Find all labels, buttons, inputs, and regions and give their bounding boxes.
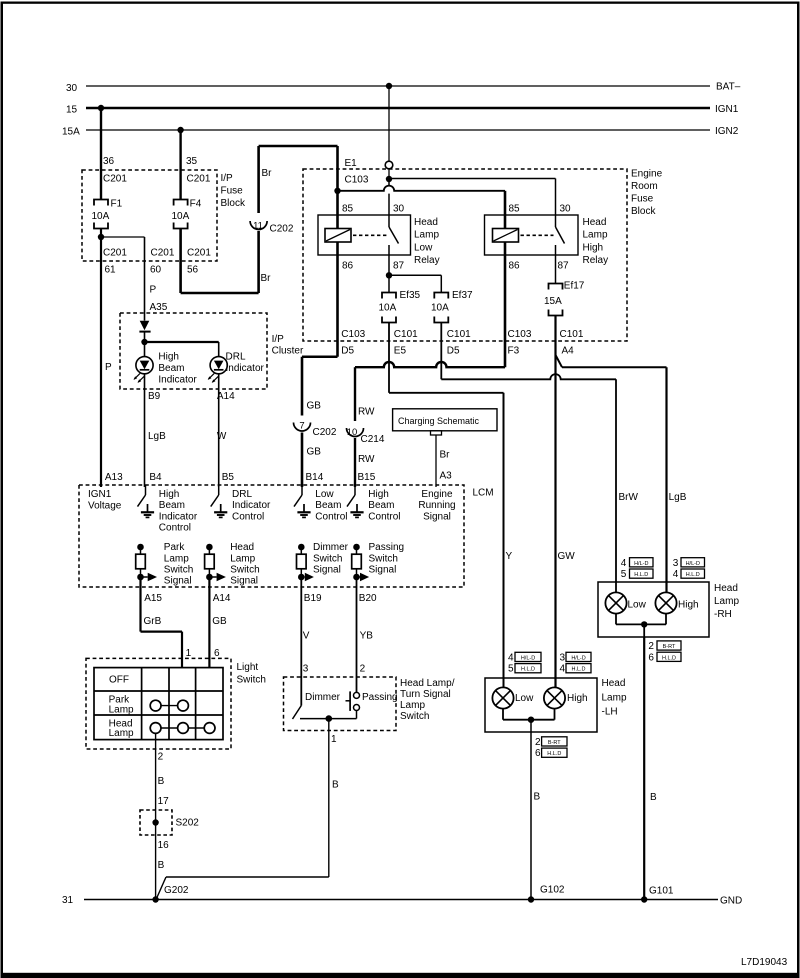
svg-text:Switch: Switch [237, 675, 266, 686]
svg-text:H/L-D: H/L-D [571, 655, 585, 661]
svg-text:GND: GND [720, 896, 742, 907]
svg-text:YB: YB [360, 631, 374, 642]
svg-text:C103: C103 [341, 329, 365, 340]
svg-text:Passing: Passing [362, 692, 398, 703]
svg-text:High: High [567, 693, 588, 704]
svg-text:H.L.D: H.L.D [521, 667, 535, 673]
svg-text:87: 87 [393, 261, 405, 272]
svg-text:B9: B9 [148, 391, 161, 402]
svg-text:Room: Room [631, 181, 658, 192]
svg-text:Head: Head [714, 583, 738, 594]
svg-text:10A: 10A [92, 211, 110, 222]
svg-text:Running: Running [418, 500, 455, 511]
svg-text:1: 1 [331, 734, 337, 745]
svg-text:11: 11 [253, 221, 263, 232]
svg-text:IGN1: IGN1 [715, 104, 739, 115]
svg-text:I/P: I/P [272, 334, 285, 345]
svg-text:B5: B5 [222, 472, 235, 483]
svg-text:36: 36 [103, 156, 115, 167]
svg-text:-LH: -LH [602, 707, 618, 718]
svg-text:85: 85 [509, 203, 521, 214]
svg-text:GW: GW [558, 551, 576, 562]
svg-text:6: 6 [648, 652, 654, 663]
svg-text:A13: A13 [105, 472, 123, 483]
svg-text:Head Lamp/: Head Lamp/ [400, 678, 455, 689]
svg-text:Control: Control [159, 523, 191, 534]
svg-text:B: B [332, 780, 339, 791]
svg-text:G202: G202 [164, 885, 189, 896]
svg-text:High: High [159, 489, 180, 500]
svg-text:A4: A4 [562, 346, 575, 357]
svg-text:Indicator: Indicator [232, 500, 271, 511]
svg-text:Beam: Beam [159, 500, 185, 511]
svg-text:GB: GB [212, 616, 227, 627]
svg-text:30: 30 [560, 203, 572, 214]
svg-text:7: 7 [299, 421, 304, 432]
svg-text:Control: Control [315, 511, 347, 522]
svg-text:30: 30 [393, 203, 405, 214]
svg-text:Switch: Switch [313, 553, 342, 564]
svg-text:Lamp: Lamp [230, 553, 255, 564]
svg-text:56: 56 [187, 265, 199, 276]
svg-text:P: P [105, 362, 112, 373]
svg-text:Y: Y [506, 551, 513, 562]
svg-text:C101: C101 [394, 329, 418, 340]
svg-text:High: High [583, 242, 604, 253]
svg-text:1: 1 [186, 648, 192, 659]
svg-text:A35: A35 [150, 302, 168, 313]
svg-text:86: 86 [509, 261, 521, 272]
svg-text:5: 5 [621, 569, 627, 580]
svg-text:10A: 10A [379, 303, 397, 314]
svg-text:BrW: BrW [619, 492, 639, 503]
svg-text:Lamp: Lamp [714, 596, 739, 607]
svg-text:H/L-D: H/L-D [634, 561, 648, 567]
svg-text:Lamp: Lamp [109, 704, 134, 715]
svg-text:W: W [217, 431, 227, 442]
svg-text:10: 10 [347, 427, 358, 438]
svg-text:60: 60 [150, 265, 162, 276]
svg-text:2: 2 [648, 641, 654, 652]
svg-text:Head: Head [602, 678, 626, 689]
svg-text:Low: Low [515, 693, 534, 704]
svg-text:B19: B19 [304, 593, 322, 604]
svg-text:Low: Low [315, 489, 334, 500]
svg-text:Lamp: Lamp [109, 728, 134, 739]
svg-text:P: P [150, 285, 157, 296]
svg-text:C214: C214 [361, 434, 385, 445]
svg-text:Fuse: Fuse [221, 186, 244, 197]
svg-text:GB: GB [307, 401, 322, 412]
svg-text:3: 3 [673, 558, 679, 569]
svg-text:17: 17 [158, 796, 170, 807]
svg-text:Control: Control [368, 511, 400, 522]
svg-text:C103: C103 [508, 329, 532, 340]
svg-text:Block: Block [221, 198, 246, 209]
svg-text:Signal: Signal [369, 565, 397, 576]
svg-text:Relay: Relay [583, 255, 609, 266]
svg-text:Head: Head [230, 542, 254, 553]
svg-text:C201: C201 [103, 248, 127, 259]
svg-text:61: 61 [105, 265, 117, 276]
svg-text:A14: A14 [213, 593, 231, 604]
svg-text:Passing: Passing [369, 542, 405, 553]
svg-text:H.L.D: H.L.D [686, 572, 700, 578]
svg-text:IGN1: IGN1 [88, 489, 112, 500]
svg-text:10A: 10A [172, 211, 190, 222]
svg-text:C201: C201 [151, 248, 175, 259]
svg-text:Ef35: Ef35 [400, 290, 421, 301]
svg-text:3: 3 [303, 664, 309, 675]
svg-text:L7D19043: L7D19043 [741, 957, 788, 968]
svg-text:High: High [368, 489, 389, 500]
svg-text:BAT–: BAT– [716, 82, 741, 93]
svg-text:5: 5 [508, 664, 514, 675]
svg-text:6: 6 [214, 648, 220, 659]
svg-text:B15: B15 [358, 472, 376, 483]
svg-text:Beam: Beam [315, 500, 341, 511]
svg-text:2: 2 [535, 737, 541, 748]
svg-text:Park: Park [164, 542, 186, 553]
svg-text:C201: C201 [187, 248, 211, 259]
svg-text:F3: F3 [508, 346, 520, 357]
svg-text:C103: C103 [345, 175, 369, 186]
svg-text:Switch: Switch [230, 565, 259, 576]
svg-text:B14: B14 [306, 472, 324, 483]
svg-text:15: 15 [66, 105, 78, 116]
svg-text:H/L-D: H/L-D [521, 655, 535, 661]
svg-text:Lamp: Lamp [400, 700, 425, 711]
svg-text:F1: F1 [111, 199, 123, 210]
svg-text:Lamp: Lamp [164, 553, 189, 564]
svg-text:B: B [158, 776, 165, 787]
svg-text:DRL: DRL [226, 352, 246, 363]
svg-text:F4: F4 [190, 199, 202, 210]
svg-text:4: 4 [508, 652, 514, 663]
svg-text:RW: RW [358, 454, 375, 465]
svg-text:31: 31 [62, 895, 74, 906]
svg-text:10A: 10A [431, 303, 449, 314]
svg-text:Switch: Switch [369, 553, 398, 564]
svg-text:B-RT: B-RT [548, 740, 561, 746]
svg-text:Lamp: Lamp [583, 230, 608, 241]
svg-text:C201: C201 [187, 174, 211, 185]
svg-text:Signal: Signal [313, 565, 341, 576]
svg-text:Switch: Switch [400, 711, 429, 722]
svg-text:2: 2 [158, 752, 164, 763]
svg-text:B20: B20 [359, 593, 377, 604]
svg-text:6: 6 [535, 748, 541, 759]
svg-text:Signal: Signal [230, 576, 258, 587]
svg-text:DRL: DRL [232, 489, 252, 500]
svg-text:Indicator: Indicator [226, 363, 265, 374]
svg-text:Signal: Signal [423, 511, 451, 522]
svg-text:E5: E5 [394, 346, 407, 357]
svg-text:Fuse: Fuse [631, 194, 654, 205]
svg-text:Block: Block [631, 206, 656, 217]
svg-text:H.L.D: H.L.D [634, 572, 648, 578]
svg-text:C202: C202 [313, 427, 337, 438]
svg-text:3: 3 [560, 652, 566, 663]
svg-text:B: B [534, 792, 541, 803]
svg-text:Turn Signal: Turn Signal [400, 689, 451, 700]
svg-text:G102: G102 [540, 885, 565, 896]
svg-text:D5: D5 [447, 346, 460, 357]
svg-text:Light: Light [237, 662, 259, 673]
svg-text:Indicator: Indicator [159, 511, 198, 522]
svg-text:35: 35 [186, 156, 198, 167]
svg-text:A3: A3 [440, 471, 453, 482]
svg-text:Beam: Beam [368, 500, 394, 511]
svg-text:Dimmer: Dimmer [313, 542, 349, 553]
svg-text:H.L.D: H.L.D [662, 655, 676, 661]
svg-text:Beam: Beam [158, 363, 184, 374]
svg-text:86: 86 [342, 261, 354, 272]
svg-text:Head: Head [583, 217, 607, 228]
svg-text:-RH: -RH [714, 609, 732, 620]
svg-text:H.L.D: H.L.D [571, 667, 585, 673]
svg-text:B-RT: B-RT [663, 644, 676, 650]
svg-text:GrB: GrB [144, 616, 162, 627]
svg-text:Switch: Switch [164, 565, 193, 576]
svg-text:Br: Br [440, 450, 451, 461]
svg-text:S202: S202 [176, 818, 200, 829]
svg-text:LgB: LgB [148, 431, 166, 442]
svg-text:15A: 15A [62, 127, 80, 138]
svg-text:B4: B4 [149, 472, 162, 483]
svg-text:Voltage: Voltage [88, 501, 122, 512]
svg-text:GB: GB [307, 447, 322, 458]
svg-text:4: 4 [673, 569, 679, 580]
svg-text:Ef37: Ef37 [452, 290, 473, 301]
svg-text:IGN2: IGN2 [715, 126, 739, 137]
svg-text:Low: Low [414, 242, 433, 253]
svg-text:Lamp: Lamp [414, 230, 439, 241]
svg-text:85: 85 [342, 203, 354, 214]
svg-text:Br: Br [262, 168, 273, 179]
svg-text:A15: A15 [144, 593, 162, 604]
svg-text:V: V [303, 631, 310, 642]
svg-text:4: 4 [621, 558, 627, 569]
svg-text:OFF: OFF [109, 675, 129, 686]
svg-text:A14: A14 [217, 391, 235, 402]
svg-text:High: High [158, 352, 179, 363]
svg-text:Dimmer: Dimmer [305, 692, 341, 703]
svg-text:2: 2 [360, 664, 366, 675]
svg-text:E1: E1 [345, 158, 358, 169]
svg-text:4: 4 [560, 664, 566, 675]
svg-text:H.L.D: H.L.D [547, 751, 561, 757]
svg-text:C202: C202 [270, 224, 294, 235]
svg-text:Engine: Engine [631, 169, 663, 180]
svg-text:Engine: Engine [421, 489, 453, 500]
svg-text:LCM: LCM [473, 488, 494, 499]
svg-text:B: B [158, 860, 165, 871]
svg-text:Charging Schematic: Charging Schematic [398, 416, 480, 426]
svg-text:B: B [650, 792, 657, 803]
svg-text:High: High [678, 600, 699, 611]
svg-text:RW: RW [358, 407, 375, 418]
svg-text:15A: 15A [544, 296, 562, 307]
svg-text:Control: Control [232, 511, 264, 522]
svg-text:Indicator: Indicator [158, 374, 197, 385]
svg-text:D5: D5 [341, 346, 354, 357]
svg-text:Br: Br [261, 273, 272, 284]
svg-text:Ef17: Ef17 [564, 281, 585, 292]
svg-text:Relay: Relay [414, 255, 440, 266]
svg-text:30: 30 [66, 83, 78, 94]
svg-text:Signal: Signal [164, 576, 192, 587]
svg-text:C101: C101 [447, 329, 471, 340]
svg-text:16: 16 [158, 840, 170, 851]
svg-text:LgB: LgB [669, 492, 687, 503]
svg-text:G101: G101 [649, 886, 674, 897]
svg-text:Head: Head [414, 217, 438, 228]
svg-text:C201: C201 [103, 174, 127, 185]
svg-text:I/P: I/P [221, 173, 234, 184]
svg-text:Lamp: Lamp [602, 692, 627, 703]
svg-text:Low: Low [628, 600, 647, 611]
svg-text:H/L-D: H/L-D [686, 561, 700, 567]
svg-text:Cluster: Cluster [272, 346, 304, 357]
svg-text:C101: C101 [560, 329, 584, 340]
svg-text:87: 87 [558, 261, 570, 272]
